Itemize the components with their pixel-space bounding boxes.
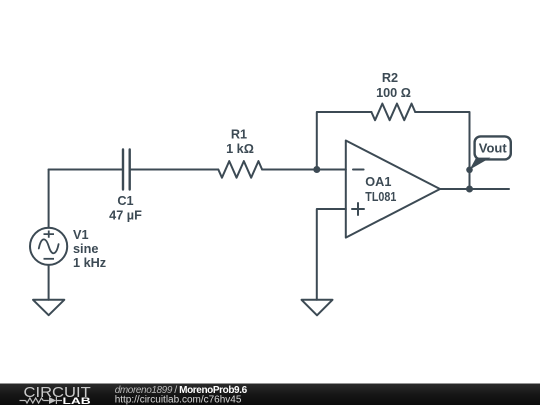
svg-text:http://circuitlab.com/c76hv45: http://circuitlab.com/c76hv45 [115,395,242,405]
svg-text:sine: sine [73,242,98,256]
svg-text:Vout: Vout [479,140,508,155]
svg-text:1 kHz: 1 kHz [73,256,106,270]
svg-text:R2: R2 [382,71,398,85]
svg-text:47 µF: 47 µF [109,209,142,223]
svg-text:C1: C1 [117,194,133,208]
svg-text:1 kΩ: 1 kΩ [226,142,254,156]
svg-text:LAB: LAB [63,396,92,405]
svg-text:TL081: TL081 [365,190,396,204]
svg-text:R1: R1 [231,128,247,142]
svg-text:V1: V1 [73,228,89,242]
svg-text:100 Ω: 100 Ω [376,86,411,100]
svg-text:OA1: OA1 [365,175,391,189]
